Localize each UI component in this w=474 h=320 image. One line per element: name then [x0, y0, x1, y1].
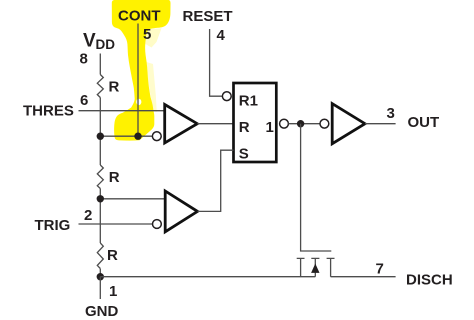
svg-text:2: 2: [84, 207, 92, 224]
wire: RESET net: [210, 29, 223, 96]
wire: resistor chain upper segment: [99, 98, 101, 166]
junction node B: [97, 195, 104, 202]
junction node A: [97, 133, 104, 140]
svg-text:7: 7: [376, 260, 384, 277]
wire: latch output node: [288, 123, 320, 125]
junction GND node: [97, 273, 104, 280]
resistor R (bottom): [97, 243, 103, 269]
resistor R (middle): [97, 165, 103, 188]
wire: divider node A to comparator minus: [100, 135, 153, 137]
highlighter pale wash right of stroke (lower): [147, 62, 157, 112]
op-amp comparator 1: [165, 105, 198, 143]
svg-text:GND: GND: [85, 303, 119, 320]
svg-text:R: R: [109, 169, 120, 186]
highlighter skip notch over wire: [136, 99, 141, 105]
svg-text:1: 1: [109, 283, 117, 300]
wire: drain to DISCH: [331, 276, 396, 278]
svg-text:CONT: CONT: [118, 7, 161, 24]
resistor R (top): [97, 75, 103, 98]
wire: gate net from latch output: [301, 124, 332, 251]
svg-text:3: 3: [387, 105, 395, 122]
transistor Q1 channel bulk contact: [311, 258, 319, 276]
inverting bubble output buffer: [320, 119, 329, 128]
wire: THRES to comparator: [79, 110, 167, 112]
svg-text:8: 8: [80, 51, 88, 68]
op-amp comparator 2: [165, 191, 197, 232]
highlighter stroke over CONT net: [112, 0, 171, 141]
inverting bubble latch output: [280, 119, 289, 128]
svg-text:TRIG: TRIG: [35, 217, 71, 234]
svg-text:RESET: RESET: [183, 8, 233, 25]
wire: GND lead: [99, 277, 101, 299]
svg-text:6: 6: [80, 92, 88, 109]
svg-text:4: 4: [217, 27, 226, 44]
wire: comparator 2 output to latch S: [198, 150, 234, 211]
svg-text:S: S: [239, 146, 249, 163]
svg-text:THRES: THRES: [23, 103, 74, 120]
output buffer U2: [332, 104, 365, 144]
svg-text:5: 5: [143, 26, 151, 43]
wire: TRIG to comparator: [79, 223, 153, 225]
svg-text:R1: R1: [239, 92, 258, 109]
inverting bubble comparator 2: [153, 220, 162, 229]
transistor Q1 bulk arrow: [311, 264, 319, 273]
svg-text:OUT: OUT: [408, 114, 440, 131]
svg-text:DISCH: DISCH: [406, 272, 453, 289]
wire: VDD lead: [99, 54, 101, 75]
highlighter pale wash right of stroke (upper): [146, 28, 162, 47]
wire: comparator 1 output to latch R: [197, 123, 233, 125]
svg-text:R: R: [239, 119, 250, 136]
wire: ground rail to transistor source: [100, 276, 315, 278]
wire: divider node B to comparator plus: [100, 198, 166, 200]
transistor Q1 channel drain contact: [327, 258, 335, 276]
svg-text:V: V: [83, 30, 96, 51]
svg-text:1: 1: [266, 119, 274, 136]
wire: resistor chain middle segment: [99, 189, 101, 244]
latch U1 box: [234, 83, 277, 162]
wire: CONT net: [137, 24, 139, 137]
svg-text:DD: DD: [96, 37, 116, 52]
junction latch output: [297, 120, 304, 127]
inverting bubble R1 input: [222, 92, 231, 101]
inverting bubble comparator 1: [152, 132, 161, 141]
svg-text:R: R: [107, 247, 118, 264]
svg-text:R: R: [109, 78, 120, 95]
junction CONT on node A: [134, 133, 141, 140]
wire: resistor chain lower segment: [99, 269, 101, 277]
transistor Q1 channel source contact: [297, 258, 305, 276]
wire: OUT lead: [365, 123, 396, 125]
